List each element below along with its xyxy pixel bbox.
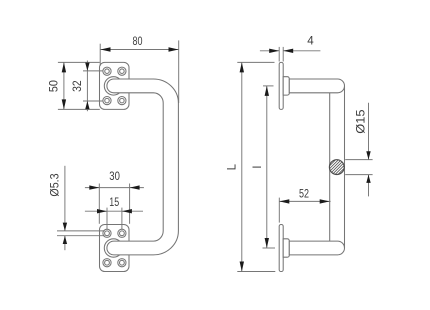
dim 80 extension line left: [99, 44, 101, 66]
arrow 80 right: [169, 47, 179, 51]
arrow 5.3 top (outside): [63, 223, 67, 231]
dim 52 line: [279, 200, 330, 202]
top mounting plate (front view): [100, 62, 130, 109]
dim 50 extension bottom (plate bottom): [58, 108, 100, 110]
dim 4 extension left: [278, 47, 280, 62]
arrow 80 left: [101, 47, 111, 51]
top neck tube (side view): [289, 79, 344, 93]
dim 5.3 tangent line bottom: [57, 235, 105, 237]
handle tube outline (front view): [107, 79, 178, 255]
dim Ø15 line lower: [368, 175, 370, 197]
top plate screw hole upper-left: [103, 67, 111, 75]
arrow 5.3 bottom (outside): [63, 236, 67, 244]
arrow 52 right: [320, 199, 330, 203]
dim 5.3 line lower: [64, 236, 66, 251]
svg-text:4: 4: [307, 35, 314, 48]
svg-text:15: 15: [109, 196, 119, 209]
dim 52 extension: [278, 198, 280, 223]
arrow 4 left (outside): [269, 49, 279, 53]
dim 4 extension right: [282, 47, 284, 62]
bottom plate screw hole upper-left: [103, 229, 111, 237]
arrow 32 bottom (outside): [85, 101, 89, 109]
arrow 4 right (outside): [283, 49, 293, 53]
bottom plate screw hole lower-left: [103, 259, 111, 267]
top plate screw hole lower-left: [103, 97, 111, 105]
dim 4 line left: [260, 50, 279, 52]
dim 32 extension top (hole centers): [83, 70, 103, 72]
arrow 30 left (outside): [89, 185, 99, 189]
svg-text:L: L: [226, 163, 239, 170]
arrow 32 top (outside): [85, 63, 89, 71]
dim L extension bottom: [237, 271, 275, 273]
svg-text:80: 80: [133, 35, 143, 48]
grip cross-section hatched circle Ø15: [313, 143, 361, 191]
top collar circle (front view): [104, 77, 122, 95]
svg-text:Ø15: Ø15: [354, 109, 367, 133]
svg-text:52: 52: [299, 187, 309, 200]
arrow 15 left (outside): [97, 209, 107, 213]
grip tube right edge (side view): [344, 86, 346, 248]
top mounting plate edge-on (side view): [279, 62, 283, 109]
bottom plate screw hole lower-right: [118, 259, 126, 267]
dim 15 line: [85, 210, 143, 212]
dim 30 extension left: [98, 184, 100, 224]
bottom mounting plate (front view): [100, 225, 130, 272]
dim 4 line right: [283, 50, 320, 52]
svg-text:30: 30: [109, 170, 120, 183]
dim 5.3 tangent line top: [57, 230, 105, 232]
bottom mounting plate edge-on (side view): [279, 225, 283, 272]
dim 32 line: [86, 61, 88, 112]
svg-text:l: l: [251, 166, 264, 169]
bottom plate screw hole upper-right: [118, 229, 126, 237]
top plate screw hole upper-right: [118, 67, 126, 75]
dim Ø15 tangent line top: [345, 159, 372, 161]
arrow L top: [240, 62, 244, 72]
dim l tick bottom: [263, 247, 276, 249]
arrow l bottom: [265, 238, 269, 248]
arrow 50 top: [62, 62, 66, 72]
dim 30 line: [85, 187, 144, 189]
dim Ø15 tangent line bottom: [345, 174, 372, 176]
arrow 30 right (outside): [130, 185, 140, 189]
dim 80 extension line right: [178, 40, 180, 103]
bottom neck tube (side view): [289, 241, 344, 255]
dimension texts: [48, 35, 368, 209]
grip tube left edge (side view): [329, 93, 331, 241]
dim L line: [241, 62, 243, 271]
dim L extension top: [237, 61, 274, 63]
svg-text:32: 32: [71, 80, 84, 92]
dim l line: [266, 86, 268, 248]
arrow l top: [265, 86, 269, 96]
top plate screw hole lower-right: [118, 97, 126, 105]
dim Ø15 line upper: [368, 103, 370, 160]
top collar (side view): [283, 77, 289, 95]
arrow 50 bottom: [62, 99, 66, 109]
arrow 52 left: [279, 199, 289, 203]
arrow L bottom: [240, 262, 244, 272]
dim 50 extension top (plate top): [58, 61, 100, 63]
dim l tick top: [263, 85, 274, 87]
arrow Ø15 bottom (outside): [366, 175, 370, 183]
dim 50 line: [63, 62, 65, 109]
svg-text:50: 50: [48, 80, 61, 92]
dimension lines: [57, 40, 373, 271]
arrowheads: [62, 47, 371, 271]
bottom collar (side view): [283, 239, 289, 257]
arrow Ø15 top (outside): [366, 151, 370, 159]
dim 15 extension right: [121, 208, 123, 229]
dim 15 extension left: [106, 208, 108, 229]
dim 30 extension right: [129, 184, 131, 224]
dim 32 extension bottom (hole centers): [83, 100, 103, 102]
svg-text:Ø5.3: Ø5.3: [48, 173, 61, 196]
arrow 15 right (outside): [122, 209, 132, 213]
dim 5.3 line upper: [64, 166, 66, 231]
bottom collar circle (front view): [104, 239, 122, 257]
dim 80 line: [101, 49, 179, 51]
